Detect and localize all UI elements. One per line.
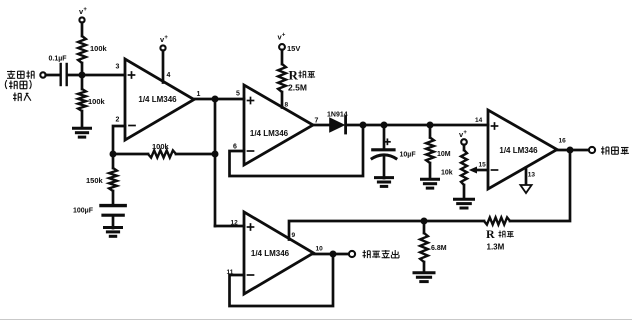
wiper arrow to pin 15	[475, 169, 488, 172]
ground R6	[422, 178, 439, 181]
node F junction	[381, 122, 388, 129]
op-amp U3 1/4 LM346	[488, 110, 557, 189]
wire node D to R4	[112, 154, 115, 168]
svg-text:16: 16	[559, 138, 567, 145]
wire node F to C3	[383, 125, 386, 148]
svg-text:1N914: 1N914	[327, 112, 348, 119]
capacitor C3 10uF	[385, 141, 390, 143]
resistor R9 6.8M	[420, 233, 428, 262]
wire C3 to ground	[383, 157, 386, 178]
wire U2 output to diode	[313, 124, 329, 127]
wire R9 to ground	[423, 262, 426, 273]
svg-text:100µF: 100µF	[73, 208, 94, 215]
pin 13 arrow	[525, 168, 528, 185]
svg-text:9: 9	[292, 232, 296, 239]
wire V+ to R1	[81, 23, 84, 36]
node B junction	[212, 96, 219, 103]
wire C1 to node A	[68, 74, 125, 77]
node audio output terminal	[349, 251, 355, 257]
ground R7	[455, 198, 474, 201]
wire U4 output to audio terminal	[314, 253, 349, 256]
svg-text:10µF: 10µF	[400, 152, 417, 159]
diode D1 1N914	[330, 118, 344, 132]
wire node I to pin 9 stub	[289, 221, 424, 240]
node D junction	[110, 151, 117, 158]
resistor R2 100k	[78, 89, 86, 111]
wire node A to R2	[81, 75, 84, 89]
svg-text:7: 7	[315, 118, 319, 125]
node input terminal	[40, 72, 45, 77]
svg-text:+: +	[282, 33, 286, 39]
svg-text:10k: 10k	[441, 170, 453, 177]
svg-text:4: 4	[167, 72, 171, 79]
wire node B down to node C and pin 12	[214, 99, 217, 226]
svg-text:1/4 LM346: 1/4 LM346	[251, 249, 290, 258]
svg-text:6: 6	[233, 144, 237, 151]
resistor R4 150k	[109, 168, 117, 191]
wire U2 pin6 feedback loop	[230, 125, 364, 176]
node J junction	[330, 251, 337, 258]
svg-text:1.3M: 1.3M	[487, 243, 505, 252]
op-amp U1 1/4 LM346	[125, 59, 194, 140]
capacitor C2 100uF	[101, 204, 125, 207]
svg-text:3: 3	[116, 64, 120, 71]
svg-text:1/4 LM346: 1/4 LM346	[499, 146, 538, 155]
wire node G to R6	[429, 125, 432, 138]
svg-text:14: 14	[475, 117, 483, 124]
wire V+ to R7	[463, 145, 466, 150]
wire pin4 to V+	[162, 51, 165, 83]
node control terminal	[589, 147, 595, 153]
svg-text:10M: 10M	[437, 151, 451, 158]
resistor R8 Rset 1.3M	[484, 217, 510, 224]
svg-text:+: +	[83, 7, 87, 13]
svg-text:13: 13	[528, 172, 536, 179]
wire R2 to ground	[81, 111, 84, 128]
svg-text:12: 12	[231, 220, 239, 227]
svg-text:+: +	[164, 35, 168, 41]
wire node H down to R8	[510, 150, 570, 221]
wire R4 to C2	[112, 191, 115, 204]
wire node C to U4 +input pin 12	[215, 225, 244, 228]
svg-text:100k: 100k	[152, 142, 170, 151]
svg-text:5: 5	[236, 91, 240, 98]
ground C3	[376, 176, 393, 179]
wire input to C1	[46, 74, 60, 77]
capacitor C1 0.1uF	[60, 64, 62, 85]
svg-text:1/4 LM346: 1/4 LM346	[250, 129, 289, 138]
node H junction	[567, 147, 574, 154]
svg-text:1/4 LM346: 1/4 LM346	[138, 95, 177, 104]
wire R3 to node C	[176, 153, 215, 156]
resistor R5 Rset 2.5M	[278, 64, 286, 92]
svg-text:R: R	[486, 227, 495, 241]
wire R6 to ground	[429, 163, 432, 179]
op-amp U4 1/4 LM346	[244, 212, 314, 294]
svg-text:10: 10	[316, 246, 324, 253]
border bottom scan line	[0, 319, 632, 321]
ground input divider	[74, 127, 91, 130]
wire node D feedback run	[113, 153, 148, 156]
potentiometer R7 10k	[461, 150, 467, 185]
svg-text:150k: 150k	[86, 176, 104, 185]
svg-text:2.5M: 2.5M	[288, 83, 307, 93]
svg-text:1: 1	[197, 91, 201, 98]
node A junction	[79, 72, 86, 79]
wire V+ to R5	[281, 50, 284, 64]
svg-text:8: 8	[285, 102, 289, 109]
svg-text:15V: 15V	[287, 44, 300, 53]
ground C2	[105, 226, 122, 229]
resistor R6 10M	[426, 138, 434, 164]
wire C2 to ground	[112, 217, 115, 228]
svg-text:2: 2	[116, 117, 120, 124]
svg-text:100k: 100k	[88, 97, 106, 106]
wire node I to R9	[423, 221, 426, 233]
svg-text:15: 15	[479, 162, 487, 169]
svg-text:0.1µF: 0.1µF	[49, 56, 68, 63]
wire U3 output to control terminal	[557, 149, 589, 152]
resistor R1 100k	[78, 36, 86, 63]
svg-text:100k: 100k	[90, 44, 108, 53]
wire diode to U3 +input	[347, 124, 488, 127]
node E junction	[360, 122, 367, 129]
node G junction	[427, 122, 434, 129]
op-amp U2 1/4 LM346	[244, 85, 313, 165]
wire R7 to ground	[463, 185, 466, 199]
ground R9	[414, 271, 434, 274]
svg-text:+: +	[463, 130, 467, 136]
node C junction	[212, 151, 219, 158]
wire R8 to node I	[424, 220, 484, 223]
svg-text:6.8M: 6.8M	[431, 245, 447, 252]
resistor R3 100k feedback	[148, 150, 176, 157]
wire U4 pin11 feedback loop	[230, 254, 334, 306]
svg-text:R: R	[289, 68, 299, 83]
wire R1 to node A	[81, 63, 84, 75]
node I junction	[421, 218, 428, 225]
wire R5 to U2 pin 8	[281, 92, 284, 108]
wire U1 pin2 feedback stub	[113, 126, 125, 154]
wire U1 output to U2 +input	[194, 98, 244, 101]
